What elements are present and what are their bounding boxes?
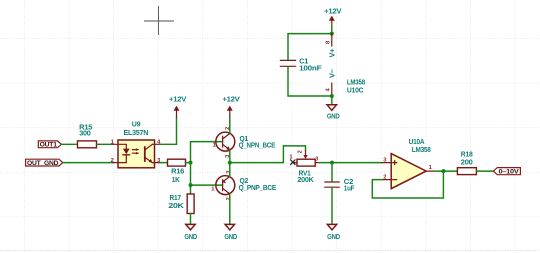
U10A + mark [393,161,397,165]
U10A pin 1 [426,170,435,172]
transistor Q1 Q_NPN_BCE [213,127,276,158]
junction node C2 [330,161,334,165]
svg-text:1uF: 1uF [344,184,355,193]
resistor R15 [78,123,97,148]
svg-text:LM358: LM358 [412,145,431,154]
U10A pin 3 [382,162,391,164]
capacitor C1 [280,56,322,72]
svg-text:200: 200 [461,157,473,166]
transistor Q2 Q_PNP_BCE [211,170,276,201]
wire junction up to Q1 base [191,142,223,163]
U9 pin 1 [113,143,118,145]
wire junction down to C2 [331,163,333,182]
svg-text:GND: GND [327,112,340,121]
U10A pin 2 [382,179,391,181]
power +12V (top rail) [324,6,341,33]
svg-text:V−: V− [327,68,336,78]
potentiometer RV1 [289,150,319,184]
wire Q1 collector to +12V [229,117,231,133]
junction node output [441,169,445,173]
global label OUT1 [38,141,61,149]
svg-text:OUT_GND: OUT_GND [27,160,59,167]
ground under R17 [184,224,197,241]
svg-text:OUT1: OUT1 [40,142,58,149]
svg-text:+12V: +12V [169,94,186,103]
resistor R18 [457,150,476,175]
ground U10C [327,105,340,121]
wire OUT1 to R15 [61,143,77,145]
wire emitter junction to Q2 emitter [229,163,231,177]
wire C2 to GND [331,188,333,225]
svg-text:100nF: 100nF [299,63,322,72]
svg-text:2: 2 [226,197,232,200]
svg-text:2: 2 [298,150,304,153]
wire R18 to output label [476,170,493,172]
optocoupler U9 EL357N [111,120,162,168]
svg-text:1K: 1K [172,175,181,184]
resistor R17 [168,193,194,213]
junction node emitters [228,161,232,165]
wire Q1 emitter down to emitter junction [229,150,231,163]
svg-text:+12V: +12V [324,6,341,15]
RV1 pin 1 with no-connect X [293,162,297,164]
wire R15 to U9 pin1 [97,143,113,145]
U9 pin 3 [155,162,161,164]
wire +12V rail to C1 [288,34,332,60]
wire Q2 collector to GND [229,194,231,225]
svg-text:EL357N: EL357N [124,128,149,137]
U9 phototransistor [145,144,155,163]
wire OUT_GND to U9 pin2 [63,162,113,164]
U9 LED light arrows [132,148,139,154]
svg-text:GND: GND [184,232,197,241]
wire R17 to GND [190,214,192,225]
ground under Q2 [224,224,237,241]
U9 internal LED [118,144,130,162]
ground under C2 [327,224,340,241]
wire emitters to RV1 wiper [230,146,306,163]
power +12V (Q1 collector) [222,94,239,117]
wire U9 pin4 to +12V [160,117,176,144]
svg-text:0–10V: 0–10V [499,169,520,176]
U9 pin 2 [113,162,118,164]
svg-text:+12V: +12V [222,94,239,103]
svg-text:V+: V+ [327,48,336,58]
junction node V- / GND [330,94,334,98]
power +12V (U9 pull-up) [169,94,186,117]
U9 pin 4 [155,143,161,145]
wire junction to R17 [190,185,192,194]
op-amp U10A [382,137,435,188]
junction node +12V / C1 / U10 V+ [330,32,334,36]
wire op-amp output to junction [435,170,443,172]
wire R16 to junction [186,162,191,164]
svg-text:20K: 20K [168,201,184,210]
wire C1 to V- rail [288,67,332,96]
svg-text:U10C: U10C [347,85,364,94]
U10C pin 8 V+ [331,34,333,46]
wire U9 pin3 to R16 [160,162,167,164]
svg-text:200K: 200K [297,175,314,184]
svg-text:Q_NPN_BCE: Q_NPN_BCE [239,140,276,149]
wire output junction to R18 [443,170,457,172]
svg-text:300: 300 [79,129,90,138]
wire RV1 to C2 junction [320,162,333,164]
wire to Q2 base [191,184,223,186]
resistor R16 [168,159,186,184]
svg-text:2: 2 [111,158,114,164]
feedback wire pin2 to output [372,171,443,198]
wire V- to GND [331,96,333,105]
wire junction down to Q2 base junction [190,163,192,186]
junction node Q2 base [189,183,193,187]
wire junction to op-amp + input [332,162,382,164]
svg-text:GND: GND [327,232,340,241]
global label 0-10V [493,168,520,176]
svg-text:GND: GND [224,232,237,241]
svg-text:Q_PNP_BCE: Q_PNP_BCE [239,183,277,192]
svg-text:2: 2 [383,174,386,180]
global label OUT_GND [26,159,63,167]
op-amp power unit U10C [325,34,365,96]
junction node base-net [189,161,193,165]
RV1 pin 3 [315,162,319,164]
capacitor C2 [325,177,355,193]
U10A - mark [393,179,397,181]
